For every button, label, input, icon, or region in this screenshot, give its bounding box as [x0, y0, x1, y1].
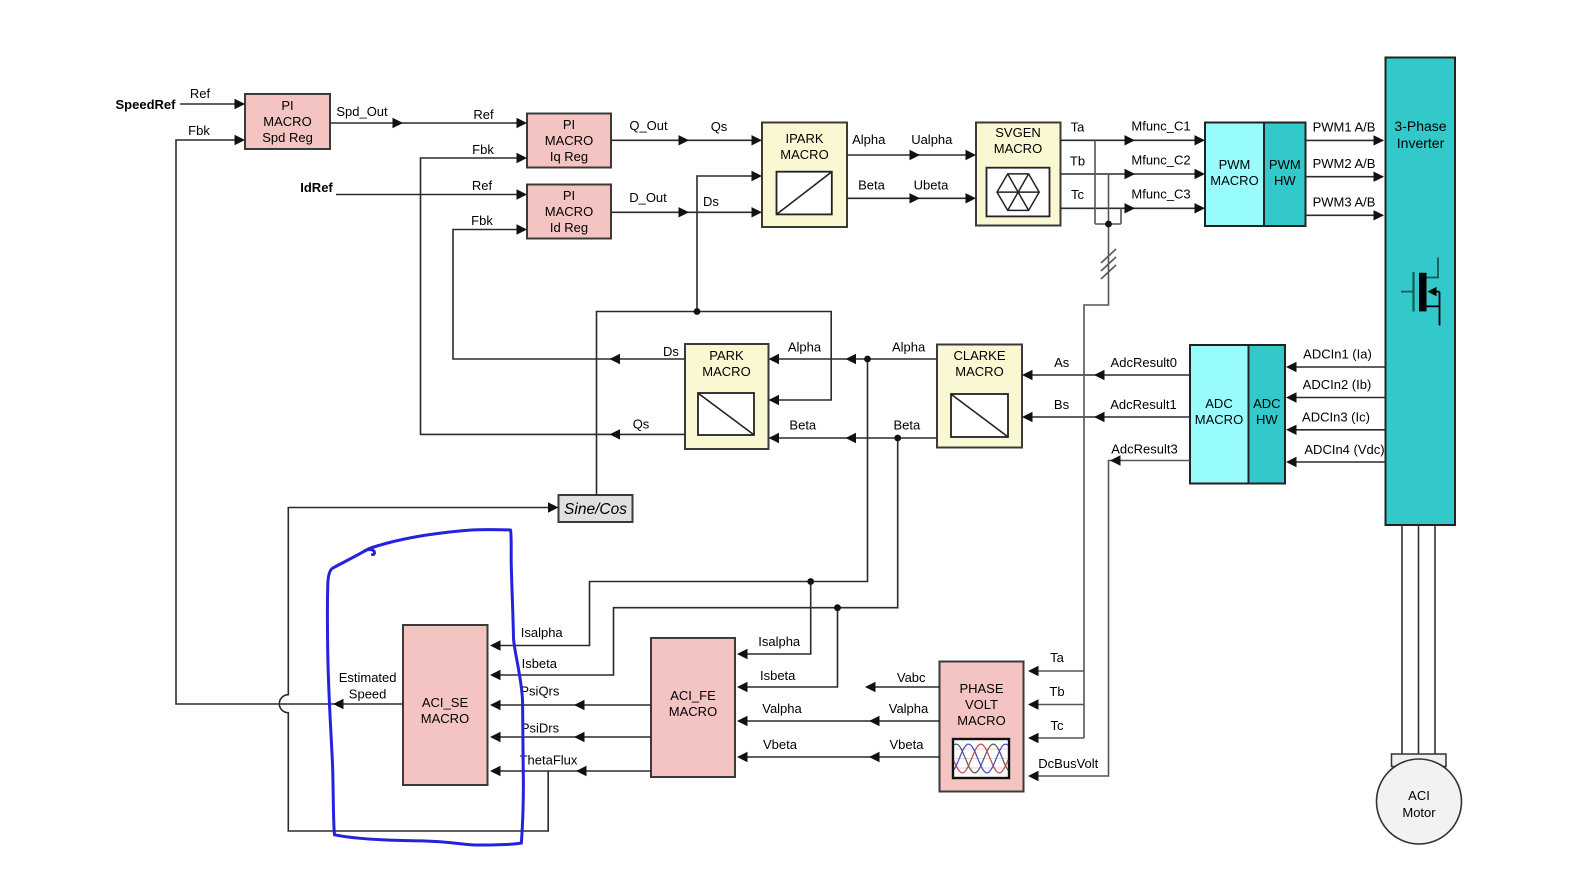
wire AdcResult3 / DcBusVolt — [1030, 461, 1190, 777]
svg-text:MACRO: MACRO — [545, 133, 593, 148]
wire Ta stub into PHASE VOLT — [1030, 670, 1084, 672]
block IPARK MACRO — [762, 123, 847, 228]
wire Valpha PHASE VOLT to ACI_FE — [739, 720, 940, 722]
svg-text:ADCIn4 (Vdc): ADCIn4 (Vdc) — [1304, 442, 1384, 457]
svg-text:Tc: Tc — [1071, 187, 1085, 202]
svg-text:IPARK: IPARK — [785, 131, 823, 146]
node Ta/Tb/Tc bus join — [1105, 221, 1112, 228]
block PHASE VOLT MACRO — [940, 662, 1024, 792]
node Isalpha tee on Alpha wire — [864, 356, 871, 363]
svg-text:MACRO: MACRO — [955, 364, 1003, 379]
svg-text:Vbeta: Vbeta — [763, 737, 798, 752]
inverter to motor leads — [1402, 525, 1435, 754]
wire Isbeta branch to ACI_FE — [739, 608, 838, 687]
svg-text:Isalpha: Isalpha — [521, 625, 564, 640]
svg-text:As: As — [1054, 355, 1070, 370]
svg-text:Sine/Cos: Sine/Cos — [564, 501, 627, 518]
svg-text:Mfunc_C1: Mfunc_C1 — [1131, 119, 1190, 134]
wire Vbeta PHASE VOLT to ACI_FE — [739, 756, 940, 758]
svg-text:ADC: ADC — [1253, 396, 1280, 411]
svg-text:IdRef: IdRef — [300, 180, 333, 195]
svg-text:Beta: Beta — [789, 418, 817, 433]
svg-text:MACRO: MACRO — [545, 204, 593, 219]
svg-text:MACRO: MACRO — [1195, 412, 1243, 427]
svg-text:ACI_FE: ACI_FE — [670, 688, 716, 703]
svg-text:HW: HW — [1256, 412, 1278, 427]
svg-text:Ta: Ta — [1050, 650, 1065, 665]
svg-text:ADCIn1 (Ia): ADCIn1 (Ia) — [1303, 347, 1372, 362]
svg-text:MACRO: MACRO — [702, 364, 750, 379]
wire Ta drop — [1094, 140, 1096, 224]
svg-text:MACRO: MACRO — [1210, 173, 1258, 188]
svg-text:Mfunc_C3: Mfunc_C3 — [1131, 187, 1190, 202]
svg-text:Spd_Out: Spd_Out — [336, 104, 388, 119]
svg-text:MACRO: MACRO — [957, 713, 1005, 728]
block SVGEN MACRO — [976, 123, 1061, 226]
sine plot icon — [953, 739, 1009, 778]
svg-text:Ualpha: Ualpha — [911, 132, 953, 147]
wire motor lead 3 — [1434, 525, 1436, 754]
wire motor lead 2 — [1418, 525, 1420, 754]
svg-text:3-Phase: 3-Phase — [1394, 118, 1446, 134]
wire bundle down with jog — [1084, 224, 1109, 738]
block ACI_FE MACRO — [651, 638, 735, 777]
ACI Motor — [1377, 759, 1462, 844]
block PI MACRO Id Reg — [527, 185, 611, 239]
svg-text:Tc: Tc — [1051, 718, 1065, 733]
blue hand-drawn annotation loop — [327, 530, 523, 845]
svg-text:Motor: Motor — [1402, 805, 1436, 820]
svg-text:DcBusVolt: DcBusVolt — [1038, 756, 1098, 771]
svg-text:CLARKE: CLARKE — [953, 348, 1005, 363]
svg-text:Ds: Ds — [663, 344, 679, 359]
wire Vabc stub — [867, 686, 940, 688]
svg-text:Valpha: Valpha — [762, 701, 802, 716]
svg-text:ACI: ACI — [1408, 788, 1430, 803]
block PWM MACRO — [1205, 123, 1264, 227]
block 3-Phase Inverter — [1386, 58, 1456, 526]
wire D_Out to IPARK Ds input — [611, 211, 760, 213]
block ADC HW — [1249, 345, 1286, 484]
wire Isalpha drop to ACI_SE — [492, 359, 868, 646]
WIRE LABELS — [116, 86, 1385, 771]
svg-text:PI: PI — [563, 117, 575, 132]
node Isbeta branch tee — [834, 604, 841, 611]
wire ThetaFlux to Sine/Cos box (with hop) — [279, 508, 556, 832]
svg-text:ADCIn2 (Ib): ADCIn2 (Ib) — [1303, 377, 1372, 392]
svg-text:Alpha: Alpha — [852, 132, 886, 147]
wire Alpha CLARKE to PARK — [771, 358, 938, 360]
ARROWHEADS — [235, 99, 1385, 781]
svg-text:Tb: Tb — [1070, 154, 1085, 169]
svg-text:Speed: Speed — [349, 687, 387, 702]
MOSFET symbol inside inverter — [1401, 258, 1440, 326]
node Isbeta tee on Beta wire — [894, 435, 901, 442]
svg-text:Tb: Tb — [1049, 684, 1064, 699]
svg-text:Isbeta: Isbeta — [522, 656, 558, 671]
svg-text:ThetaFlux: ThetaFlux — [520, 753, 578, 768]
svg-text:Bs: Bs — [1054, 397, 1070, 412]
block PI MACRO Iq Reg — [527, 114, 611, 168]
junction dots — [694, 221, 1112, 611]
svg-text:AdcResult1: AdcResult1 — [1110, 397, 1176, 412]
wire Tc drop — [1120, 208, 1122, 224]
svg-text:PI: PI — [563, 188, 575, 203]
svg-text:ACI_SE: ACI_SE — [422, 695, 469, 710]
svg-text:Spd Reg: Spd Reg — [262, 130, 313, 145]
hash marks (3-wire bundle) — [1101, 249, 1116, 279]
svg-text:Inverter: Inverter — [1397, 135, 1445, 151]
svg-text:PI: PI — [281, 98, 293, 113]
svg-text:MACRO: MACRO — [263, 114, 311, 129]
svg-text:Valpha: Valpha — [889, 701, 929, 716]
svg-text:Fbk: Fbk — [188, 123, 210, 138]
svg-text:SVGEN: SVGEN — [995, 125, 1041, 140]
svg-text:Ds: Ds — [703, 194, 719, 209]
svg-text:HW: HW — [1274, 173, 1296, 188]
wire Ds from PARK to Fbk of PI Id Reg — [453, 230, 685, 360]
svg-text:Vabc: Vabc — [897, 670, 926, 685]
wire Tc stub into PHASE VOLT — [1030, 737, 1084, 739]
svg-text:ADC: ADC — [1205, 396, 1232, 411]
wire Sine/Cos output to IPARK and PARK — [597, 312, 832, 496]
svg-text:PWM: PWM — [1269, 157, 1301, 172]
wire ThetaFlux ACI_FE to ACI_SE — [492, 770, 651, 772]
svg-text:Ref: Ref — [190, 86, 211, 101]
svg-text:Id Reg: Id Reg — [550, 220, 588, 235]
wire Tc / Mfunc_C3 SVGEN to PWM — [1061, 207, 1204, 209]
svg-text:PWM2 A/B: PWM2 A/B — [1313, 156, 1376, 171]
wire ADCIn2 (Ib) — [1288, 397, 1386, 399]
svg-text:Fbk: Fbk — [472, 142, 494, 157]
svg-text:Iq Reg: Iq Reg — [550, 149, 588, 164]
wire Beta CLARKE to PARK — [771, 437, 938, 439]
wire AdcResult0 / As into CLARKE — [1024, 374, 1190, 376]
svg-text:D_Out: D_Out — [629, 190, 667, 205]
svg-text:ADCIn3 (Ic): ADCIn3 (Ic) — [1302, 410, 1370, 425]
svg-text:Ref: Ref — [473, 107, 494, 122]
svg-text:Ta: Ta — [1071, 120, 1086, 135]
svg-text:SpeedRef: SpeedRef — [116, 97, 177, 112]
svg-text:Beta: Beta — [858, 178, 886, 193]
wire ADCIn3 (Ic) — [1288, 429, 1386, 431]
wire PsiDrs ACI_FE to ACI_SE — [492, 736, 651, 738]
svg-text:Ref: Ref — [472, 178, 493, 193]
gray distribution wires — [1030, 140, 1190, 776]
wire Isalpha branch to ACI_FE — [739, 582, 811, 655]
svg-text:VOLT: VOLT — [965, 697, 998, 712]
block PWM HW — [1264, 123, 1306, 227]
svg-text:Beta: Beta — [894, 418, 922, 433]
wire Tb / Mfunc_C2 SVGEN to PWM — [1061, 173, 1204, 175]
wire Qs from PARK to Fbk of PI Iq Reg — [421, 158, 686, 434]
svg-text:Estimated: Estimated — [339, 670, 397, 685]
wire Alpha/Ualpha IPARK to SVGEN — [847, 154, 974, 156]
motor terminal box — [1392, 754, 1447, 767]
svg-text:Mfunc_C2: Mfunc_C2 — [1131, 153, 1190, 168]
svg-text:PHASE: PHASE — [959, 681, 1003, 696]
svg-text:PWM3 A/B: PWM3 A/B — [1313, 195, 1376, 210]
svg-text:MACRO: MACRO — [780, 147, 828, 162]
svg-text:Q_Out: Q_Out — [629, 118, 668, 133]
svg-text:PsiQrs: PsiQrs — [520, 684, 560, 699]
block PARK MACRO — [685, 344, 769, 449]
wire Sine/Cos tee up to IPARK — [697, 176, 760, 312]
svg-text:AdcResult0: AdcResult0 — [1111, 355, 1177, 370]
wire IdRef to Ref of PI Id Reg — [336, 194, 525, 196]
svg-text:PWM1 A/B: PWM1 A/B — [1313, 120, 1376, 135]
wire PWM3 A/B — [1306, 214, 1384, 216]
svg-text:Vbeta: Vbeta — [890, 737, 925, 752]
svg-text:MACRO: MACRO — [994, 141, 1042, 156]
svg-text:AdcResult3: AdcResult3 — [1111, 442, 1177, 457]
block PI MACRO Spd Reg — [245, 94, 330, 149]
wire Beta/Ubeta IPARK to SVGEN — [847, 197, 974, 199]
svg-text:Isbeta: Isbeta — [760, 668, 796, 683]
wire Q_Out to IPARK Qs input — [611, 139, 760, 141]
svg-text:Alpha: Alpha — [788, 340, 822, 355]
svg-text:Fbk: Fbk — [471, 213, 493, 228]
svg-text:Qs: Qs — [633, 417, 650, 432]
wire Tb drop — [1108, 174, 1110, 224]
wire Spd_Out to Ref of PI Iq Reg — [330, 122, 525, 124]
wire motor lead 1 — [1401, 525, 1403, 754]
wire estimated speed feedback to Fbk of PI Spd Reg — [176, 140, 403, 704]
svg-text:PARK: PARK — [709, 348, 744, 363]
svg-text:PWM: PWM — [1219, 157, 1251, 172]
wire Tb stub into PHASE VOLT — [1030, 704, 1084, 706]
wire Ta / Mfunc_C1 SVGEN to PWM — [1061, 139, 1204, 141]
svg-text:Ubeta: Ubeta — [914, 178, 949, 193]
block ADC MACRO — [1190, 345, 1249, 484]
wire ADCIn1 (Ia) inverter to ADC HW — [1288, 366, 1386, 368]
wire PsiQrs ACI_FE to ACI_SE — [492, 704, 651, 706]
block ACI_SE MACRO — [403, 625, 488, 785]
wire Isbeta drop to ACI_SE — [492, 438, 898, 675]
wire SpeedRef Ref into PI Spd Reg — [180, 103, 244, 105]
block CLARKE MACRO — [937, 345, 1022, 448]
node D_Out/sincos tee — [694, 308, 701, 315]
svg-text:MACRO: MACRO — [669, 704, 717, 719]
svg-text:Qs: Qs — [711, 119, 728, 134]
svg-text:Isalpha: Isalpha — [758, 634, 801, 649]
svg-text:PsiDrs: PsiDrs — [521, 721, 560, 736]
svg-text:MACRO: MACRO — [421, 711, 469, 726]
svg-text:Alpha: Alpha — [892, 340, 926, 355]
wire AdcResult1 / Bs into CLARKE — [1024, 416, 1190, 418]
wire PWM2 A/B — [1306, 176, 1384, 178]
wire ADCIn4 (Vdc) — [1288, 461, 1386, 463]
wire PWM1 A/B — [1306, 139, 1384, 141]
wire bus join — [1095, 223, 1121, 225]
block Sine/Cos — [559, 495, 633, 522]
node Isalpha branch tee — [807, 578, 814, 585]
